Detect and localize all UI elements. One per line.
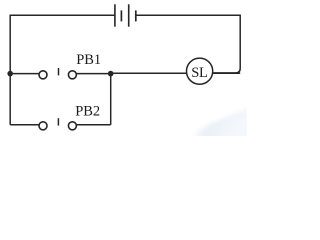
battery long plate 2 [128, 4, 130, 26]
push button PB2 [39, 118, 76, 130]
battery short plate 1 [120, 10, 122, 21]
battery (two-cell) [115, 4, 136, 26]
svg-text:PB2: PB2 [75, 103, 100, 119]
wire PB2 branch right segment [72, 124, 110, 126]
push button PB1 [39, 68, 76, 79]
node junction right [108, 71, 114, 77]
battery long plate 1 [114, 4, 116, 26]
PB1 right contact [68, 71, 76, 79]
wire lamp branch [111, 72, 241, 74]
wire from battery positive end along top and down right rail to lamp [136, 15, 240, 73]
battery short plate 2 [135, 10, 137, 21]
wire left rail and top wire to battery negative end [10, 15, 115, 125]
PB2 left contact [39, 122, 47, 130]
PB2 actuator [57, 118, 59, 125]
node junction left [7, 71, 13, 77]
PB1 left contact [39, 71, 47, 79]
PB2 right contact [68, 122, 76, 130]
wire parallel connector (right side of PB network) [110, 74, 112, 125]
svg-text:SL: SL [191, 65, 207, 81]
wire PB1 branch left segment [10, 73, 43, 75]
PB1 actuator [58, 68, 60, 75]
svg-text:PB1: PB1 [76, 52, 101, 68]
wire PB1 branch right segment [72, 73, 110, 75]
lamp SL body [187, 58, 213, 84]
wire PB2 branch left segment [10, 124, 43, 126]
